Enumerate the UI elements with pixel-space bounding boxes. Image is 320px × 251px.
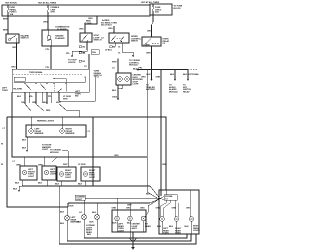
svg-text:YEL: YEL xyxy=(29,96,34,98)
box2 right front park xyxy=(42,166,56,180)
inner small box xyxy=(14,77,25,81)
wire down from stop switch xyxy=(88,54,90,69)
mid box grounds xyxy=(116,221,118,232)
svg-text:BLK: BLK xyxy=(183,74,188,76)
svg-text:WHT: WHT xyxy=(56,102,61,104)
svg-text:BRN: BRN xyxy=(3,19,8,21)
svg-text:FLASHER: FLASHER xyxy=(57,28,67,31)
ground arrow chmsl xyxy=(117,98,119,100)
wire tap at bus xyxy=(85,16,97,33)
rear lamp 2 xyxy=(174,217,178,221)
svg-text:LIC: LIC xyxy=(79,212,83,214)
fuse F2 wire xyxy=(47,5,49,8)
pigtail box xyxy=(164,195,177,201)
svg-text:BLK: BLK xyxy=(170,74,175,76)
svg-text:W: W xyxy=(1,144,3,146)
feed lamp3 xyxy=(189,190,191,217)
stop light switch contact xyxy=(82,35,88,43)
svg-text:SERVO: SERVO xyxy=(131,41,138,43)
bulb box1 xyxy=(22,170,26,174)
marker feeds xyxy=(30,117,32,129)
bulb box3 xyxy=(59,172,63,176)
wire BRN xyxy=(7,16,9,34)
grounds from boxes xyxy=(21,180,23,186)
svg-text:PPL: PPL xyxy=(139,67,144,69)
svg-text:ASSY: ASSY xyxy=(132,227,138,230)
svg-text:HOT AT ALL TIMES: HOT AT ALL TIMES xyxy=(141,1,160,4)
svg-text:LIGHT: LIGHT xyxy=(118,230,125,232)
svg-text:BLOCK: BLOCK xyxy=(174,8,182,10)
svg-text:ORG: ORG xyxy=(141,77,146,79)
mid box bulb2 xyxy=(129,203,131,216)
center high mount stop light box xyxy=(116,73,131,85)
bottom bus y244 xyxy=(59,234,196,244)
connector marks left of col xyxy=(79,52,82,54)
combination flasher box xyxy=(42,30,68,46)
marker ground xyxy=(26,137,28,150)
svg-text:15: 15 xyxy=(118,53,121,55)
fuse F1 wire xyxy=(7,5,9,8)
svg-text:LIGHT: LIGHT xyxy=(89,177,96,179)
wire to cruise module xyxy=(122,47,133,58)
inner bus xyxy=(14,77,85,82)
ground arrow left xyxy=(19,185,22,187)
svg-text:HOT IN RUN: HOT IN RUN xyxy=(5,3,17,5)
svg-text:LT: LT xyxy=(3,128,6,130)
svg-text:GRN: GRN xyxy=(172,207,177,209)
left front turn light box xyxy=(20,166,37,180)
front marker light box xyxy=(26,125,86,137)
svg-text:FLASHER: FLASHER xyxy=(55,37,65,40)
turn switch contacts xyxy=(111,36,116,42)
ground arrow xyxy=(131,247,134,250)
svg-text:GRN: GRN xyxy=(32,102,37,104)
bottom bus y241 xyxy=(67,234,191,241)
svg-text:WHT: WHT xyxy=(112,62,117,64)
wire ORG xyxy=(47,16,49,30)
turn signal switch upper box xyxy=(109,33,129,43)
feed to mid box bulb3 xyxy=(145,199,160,217)
svg-text:C2: C2 xyxy=(112,68,115,70)
lamp C xyxy=(96,203,98,215)
svg-text:C2: C2 xyxy=(163,43,166,45)
svg-text:LIGHT: LIGHT xyxy=(133,84,140,86)
svg-text:SWITCH: SWITCH xyxy=(94,40,102,42)
svg-text:BLK: BLK xyxy=(38,183,43,185)
svg-text:B3: B3 xyxy=(83,61,86,63)
bottom bus y238 xyxy=(84,234,187,238)
fuse F2 symbol xyxy=(47,8,48,12)
marker bulb left xyxy=(29,129,33,133)
small box C2 xyxy=(91,50,99,55)
svg-text:C2: C2 xyxy=(84,66,87,68)
wire from fuse right xyxy=(152,15,154,37)
svg-text:G904: G904 xyxy=(112,96,118,99)
stop light switch box xyxy=(80,33,92,42)
svg-text:15A: 15A xyxy=(92,51,96,54)
svg-text:GRN: GRN xyxy=(112,207,117,209)
box4 right front park xyxy=(81,167,100,181)
merge node xyxy=(159,198,160,199)
svg-text:GRN: GRN xyxy=(156,207,161,209)
svg-text:YEL/GRN: YEL/GRN xyxy=(13,89,22,91)
bulb box4 xyxy=(83,172,87,176)
svg-text:PPL: PPL xyxy=(48,96,53,98)
feeds lamp2 xyxy=(174,200,176,217)
svg-text:C2: C2 xyxy=(101,38,104,40)
svg-text:GRN: GRN xyxy=(146,53,151,55)
svg-text:640 LT BLU: 640 LT BLU xyxy=(101,24,112,27)
wires below multifunction box extra stubs xyxy=(28,92,30,103)
svg-text:ORG: ORG xyxy=(12,47,17,49)
svg-text:C1: C1 xyxy=(88,131,91,133)
svg-text:BLK: BLK xyxy=(112,90,117,92)
grounds in right box xyxy=(161,221,163,234)
svg-text:BLK: BLK xyxy=(17,96,22,98)
connector B2 xyxy=(79,46,82,48)
hazard switch contact xyxy=(9,39,11,41)
inner dashed line xyxy=(13,73,83,75)
drop 1 xyxy=(151,70,153,80)
svg-text:WHT: WHT xyxy=(63,98,68,100)
svg-text:HOT AT ALL TIMES: HOT AT ALL TIMES xyxy=(38,2,57,5)
vertical up from box to C2 xyxy=(88,54,90,69)
mid bus y157 xyxy=(12,156,147,158)
svg-text:RED: RED xyxy=(46,110,51,112)
svg-text:TURN: TURN xyxy=(175,233,181,235)
right rear box xyxy=(159,190,199,234)
svg-text:BLK: BLK xyxy=(70,206,75,208)
svg-text:GRN: GRN xyxy=(156,77,161,79)
chmsl bulb 2 xyxy=(125,77,129,81)
svg-text:BLK: BLK xyxy=(15,183,20,185)
svg-text:ORG: ORG xyxy=(186,207,191,209)
svg-text:BLK: BLK xyxy=(22,140,27,142)
svg-text:PARKING LIGHTS: PARKING LIGHTS xyxy=(37,120,55,123)
wire GRN down xyxy=(151,46,153,69)
svg-text:20A: 20A xyxy=(155,11,159,14)
chmsl ground wire xyxy=(121,85,123,89)
right junction node xyxy=(151,69,152,70)
fuse block bus box xyxy=(2,5,150,16)
svg-text:BLK: BLK xyxy=(157,226,162,228)
ground junction diagonals xyxy=(129,238,138,242)
svg-text:BLK: BLK xyxy=(22,148,27,150)
wire x12 down xyxy=(12,92,44,157)
wire x93 long xyxy=(92,117,94,186)
svg-text:W: W xyxy=(1,164,3,166)
svg-text:ORG: ORG xyxy=(43,22,48,24)
svg-text:HORN: HORN xyxy=(144,45,150,47)
svg-text:LIGHT: LIGHT xyxy=(76,199,83,201)
svg-text:GRN: GRN xyxy=(127,205,132,207)
junction horizontal xyxy=(137,69,189,71)
pin stubs xyxy=(114,43,116,47)
svg-text:BLK: BLK xyxy=(146,194,151,196)
left ground riser xyxy=(58,186,60,244)
drop 3 xyxy=(187,70,189,80)
svg-text:WHT: WHT xyxy=(63,164,68,166)
svg-text:RELAY: RELAY xyxy=(183,90,190,93)
svg-text:ORG: ORG xyxy=(79,29,84,31)
svg-text:PPL: PPL xyxy=(66,53,71,55)
arrow left xyxy=(136,68,138,70)
svg-text:LT BLU: LT BLU xyxy=(105,50,112,52)
svg-text:TURN SIGNAL: TURN SIGNAL xyxy=(29,71,43,74)
svg-text:LIGHT: LIGHT xyxy=(28,176,35,178)
rear cluster left lamp A xyxy=(66,207,68,216)
svg-text:BLK: BLK xyxy=(87,234,92,236)
svg-text:LIGHT: LIGHT xyxy=(193,230,200,232)
diagonal join xyxy=(52,157,57,162)
rear mid box xyxy=(112,210,146,232)
marker bulb right xyxy=(60,129,64,133)
fuse F3 symbol xyxy=(152,7,153,11)
svg-text:BLK: BLK xyxy=(77,222,82,224)
svg-text:GRY: GRY xyxy=(51,12,56,14)
svg-text:REAR: REAR xyxy=(145,225,151,228)
wire hazard out xyxy=(16,43,18,69)
svg-text:LT: LT xyxy=(13,161,16,163)
svg-text:PPL: PPL xyxy=(46,49,51,51)
multifunction switch dashed box xyxy=(12,69,89,92)
wire to stop lights xyxy=(72,47,87,56)
wire into box3 xyxy=(67,151,69,167)
svg-text:OPTIONAL: OPTIONAL xyxy=(189,73,200,76)
wire stoplight out xyxy=(86,42,88,50)
wires below multifunction box xyxy=(24,92,26,104)
wires from pigtail down xyxy=(161,200,167,217)
svg-text:B4: B4 xyxy=(113,46,116,49)
headlight switch contacts xyxy=(25,104,31,111)
svg-text:LIGHT: LIGHT xyxy=(50,174,57,176)
svg-text:BLK: BLK xyxy=(90,222,95,224)
bulb box2 xyxy=(44,170,48,174)
svg-text:MODULE: MODULE xyxy=(169,91,178,93)
wire to turn switch xyxy=(113,26,115,33)
lamp B ground xyxy=(83,220,85,239)
license pigtail box xyxy=(75,195,85,200)
svg-text:B2: B2 xyxy=(83,47,86,49)
mid box bulb1 xyxy=(116,198,118,216)
lamp C ground xyxy=(96,220,98,239)
svg-text:BLK: BLK xyxy=(13,189,18,191)
horn relay box xyxy=(142,37,161,46)
left drop of bus xyxy=(7,117,68,207)
lamp A ground xyxy=(66,221,68,242)
svg-text:LIGHT: LIGHT xyxy=(42,149,49,151)
svg-text:BLK: BLK xyxy=(92,212,97,214)
flasher symbol xyxy=(47,36,51,40)
svg-text:BLK: BLK xyxy=(169,226,174,228)
rear lamp 3 xyxy=(189,217,193,221)
svg-text:BLK: BLK xyxy=(127,223,132,225)
svg-text:ORG: ORG xyxy=(140,207,145,209)
wire y101 to x95 xyxy=(59,77,95,102)
svg-text:BLK: BLK xyxy=(78,184,83,186)
ground bus y203 xyxy=(68,199,160,204)
svg-text:ORG: ORG xyxy=(126,207,131,209)
svg-text:BLK: BLK xyxy=(113,223,118,225)
svg-text:LIGHTS: LIGHTS xyxy=(68,62,76,64)
svg-text:BATTERY: BATTERY xyxy=(146,88,156,91)
svg-text:BLK: BLK xyxy=(55,184,60,186)
wire down right long xyxy=(160,70,162,196)
svg-text:LT GRN: LT GRN xyxy=(84,23,92,25)
svg-text:ORG: ORG xyxy=(147,31,152,33)
wire y110 corner xyxy=(66,110,79,117)
svg-text:ORG: ORG xyxy=(88,18,93,20)
drops to front turn boxes xyxy=(23,157,25,166)
wire WHT down xyxy=(117,59,119,73)
svg-text:IND: IND xyxy=(75,96,79,98)
svg-text:ORG: ORG xyxy=(108,28,113,30)
svg-text:16: 16 xyxy=(118,47,121,49)
svg-text:BLK: BLK xyxy=(43,102,48,104)
ground bus y186 xyxy=(22,186,160,199)
svg-text:MODULE: MODULE xyxy=(129,65,138,67)
svg-text:MODULE: MODULE xyxy=(50,152,59,154)
mid box bulb3 xyxy=(141,216,146,221)
svg-text:BRN: BRN xyxy=(3,30,8,32)
svg-text:BLK: BLK xyxy=(60,223,65,225)
wire x166 xyxy=(165,190,167,195)
svg-text:10A: 10A xyxy=(10,13,14,16)
svg-text:GRN: GRN xyxy=(162,164,167,166)
svg-text:ORG: ORG xyxy=(11,67,16,69)
lamp B license xyxy=(83,200,85,215)
svg-text:LIGHT: LIGHT xyxy=(65,177,72,179)
hazard switch box xyxy=(6,34,19,43)
svg-text:B1: B1 xyxy=(83,52,86,54)
contacts inside xyxy=(25,84,31,91)
svg-text:BLK: BLK xyxy=(60,212,65,214)
svg-text:LT GRN: LT GRN xyxy=(78,164,86,166)
svg-text:ORG: ORG xyxy=(114,155,119,157)
dashed contact stems xyxy=(53,84,55,92)
svg-text:BLK: BLK xyxy=(185,226,190,228)
horn relay contact xyxy=(146,39,159,44)
optional dashes xyxy=(188,69,197,71)
svg-text:SWITCH: SWITCH xyxy=(21,38,29,40)
rear lamp 1 xyxy=(160,217,164,221)
license bus y198 xyxy=(85,197,160,200)
connector B4 pin xyxy=(110,46,113,48)
svg-text:MARKER: MARKER xyxy=(66,132,75,135)
connector B4 xyxy=(79,52,82,54)
svg-text:TURN: TURN xyxy=(163,233,169,235)
ground junction xyxy=(132,232,134,247)
svg-text:PPL: PPL xyxy=(46,67,51,69)
main bus y117 xyxy=(7,117,166,190)
svg-text:MARKER: MARKER xyxy=(35,132,44,135)
wire PPL xyxy=(50,46,52,69)
fuse F1 symbol xyxy=(7,8,8,12)
chmsl bulb 1 xyxy=(118,77,122,81)
svg-text:TURN: TURN xyxy=(2,90,8,92)
fuse F3 wire xyxy=(152,4,154,7)
drop 2 xyxy=(174,70,176,80)
wire x147 long xyxy=(146,70,148,192)
fuse box right xyxy=(150,4,172,15)
box3 right front turn xyxy=(57,167,76,181)
